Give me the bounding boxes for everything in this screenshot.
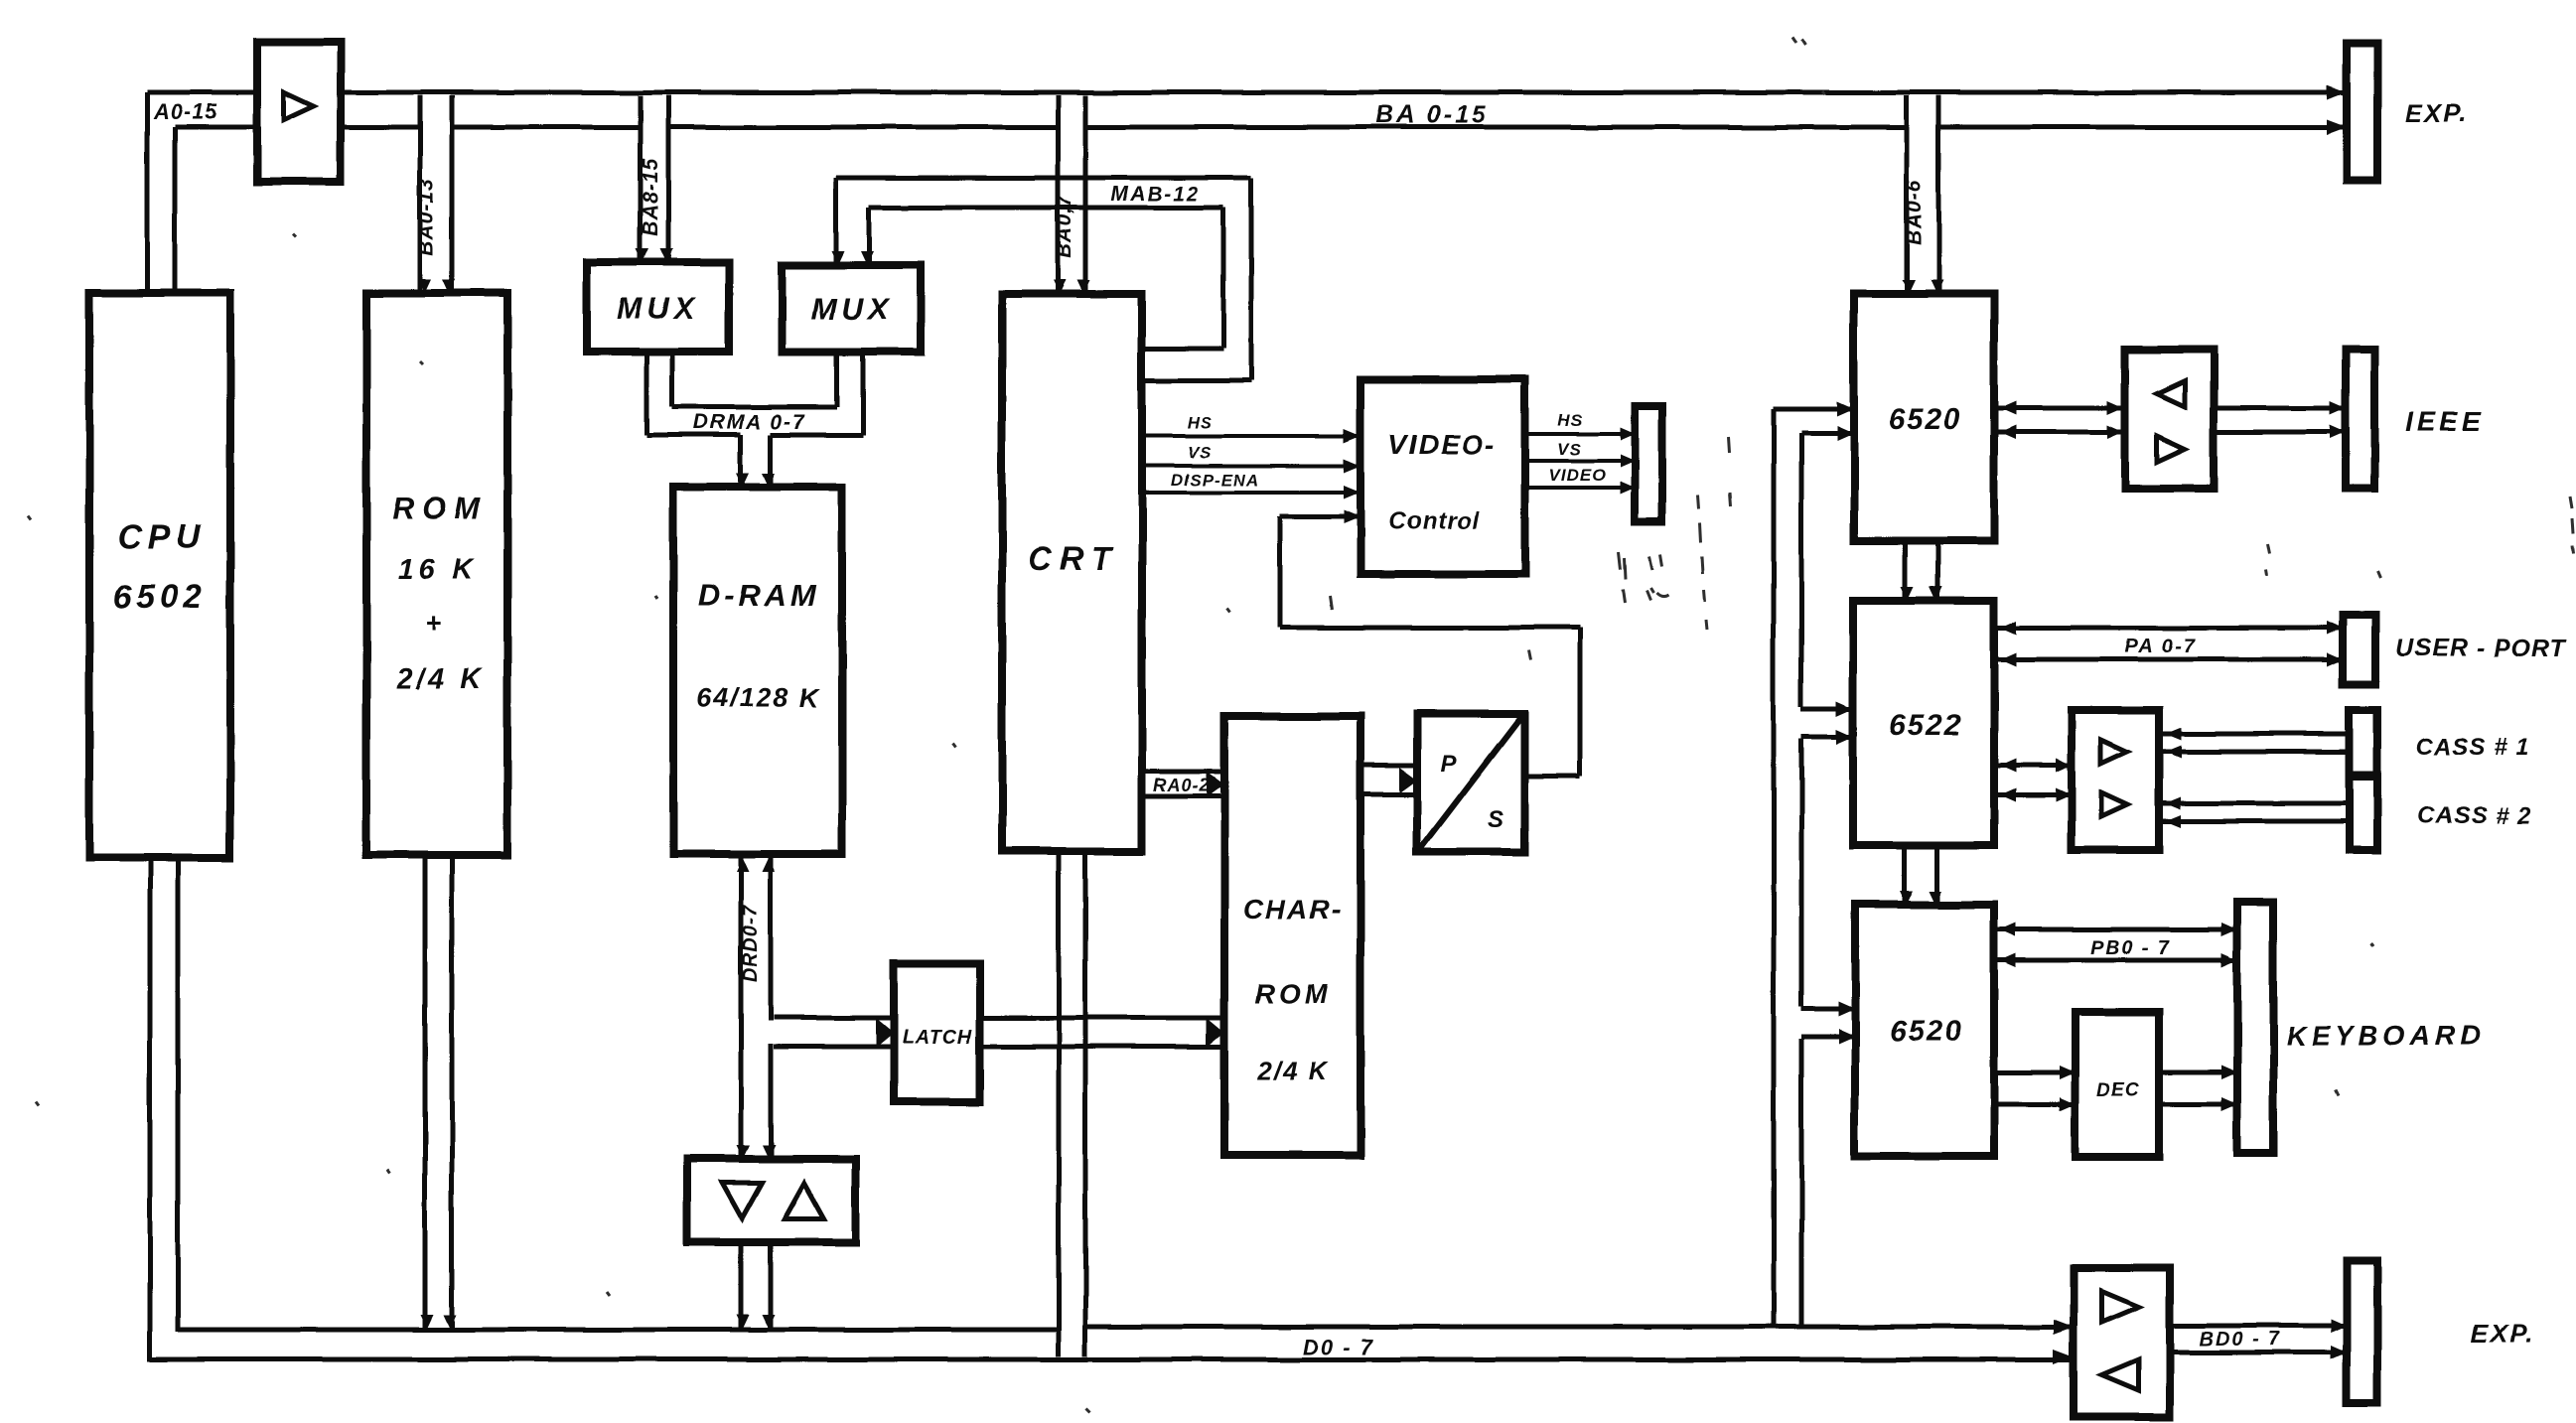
svg-text:EXP.: EXP. xyxy=(2471,1319,2534,1349)
svg-text:HS: HS xyxy=(1557,411,1583,430)
bus branch into 6520 top left xyxy=(1774,407,1850,412)
wire from P/S serial output to VIDEO-control xyxy=(1524,775,1580,780)
bus LATCH to CHAR-ROM xyxy=(980,1016,1220,1021)
bus BD0-7 buffer to bottom EXP connector xyxy=(2170,1324,2343,1329)
wire VIDEO signal to video connector xyxy=(1525,486,1631,490)
svg-text:BA0-6: BA0-6 xyxy=(1903,180,1926,245)
svg-text:LATCH: LATCH xyxy=(902,1026,972,1048)
svg-text:IEEE: IEEE xyxy=(2405,406,2485,437)
bus DRMA 0-7 from MUXes to D-RAM xyxy=(644,352,649,435)
svg-text:ROM: ROM xyxy=(392,491,488,525)
bus branch into 6522 left xyxy=(1801,707,1849,712)
ROM 16K + 2/4K xyxy=(366,293,507,855)
bus CRT data to bottom data bus xyxy=(1057,851,1062,1356)
PIA 6520 (keyboard) xyxy=(1855,905,1994,1156)
bus buffer to bottom data bus xyxy=(739,1242,744,1329)
wire VS CRT to VIDEO-control xyxy=(1142,464,1357,468)
bus DRD to LATCH xyxy=(768,1021,775,1044)
wire HS VIDEO-control to video connector xyxy=(1525,432,1631,436)
bus CHAR-ROM to P/S shifter xyxy=(1360,764,1413,769)
MUX 2 xyxy=(782,265,921,352)
svg-text:USER - PORT: USER - PORT xyxy=(2395,635,2567,662)
svg-text:2/4 K: 2/4 K xyxy=(1256,1056,1329,1085)
CASS #2 connector bar xyxy=(2350,777,2377,850)
svg-text:+: + xyxy=(426,608,444,639)
svg-text:CHAR-: CHAR- xyxy=(1243,894,1343,925)
svg-text:PA 0-7: PA 0-7 xyxy=(2125,636,2197,657)
svg-text:2/4 K: 2/4 K xyxy=(395,663,485,695)
video output connector bar xyxy=(1635,406,1662,521)
svg-text:S: S xyxy=(1488,806,1503,833)
bus 6520 to IEEE buffer xyxy=(1994,406,2125,411)
wire branch BA8-15 to MUX1 xyxy=(639,95,644,260)
svg-text:CASS # 2: CASS # 2 xyxy=(2418,802,2532,829)
svg-text:16 K: 16 K xyxy=(397,554,478,586)
bus ROM data down to data bus xyxy=(423,855,428,1329)
DEC keyboard decoder xyxy=(2075,1012,2159,1157)
bus D0-7 bottom horizontal upper line xyxy=(178,1328,1059,1333)
svg-text:A0-15: A0-15 xyxy=(153,99,218,124)
bus 6520 to 6522 xyxy=(1903,541,1908,599)
CHAR-ROM 2/4K xyxy=(1224,716,1360,1155)
EXP connector bar top right xyxy=(2347,44,2377,181)
svg-text:ROM: ROM xyxy=(1254,978,1331,1009)
svg-text:VS: VS xyxy=(1188,443,1213,462)
VIA 6522 xyxy=(1853,601,1994,845)
svg-text:RA0-2: RA0-2 xyxy=(1153,776,1210,795)
wire branch BA0-13 to ROM xyxy=(418,95,423,291)
svg-text:EXP.: EXP. xyxy=(2405,98,2469,128)
svg-text:DISP-ENA: DISP-ENA xyxy=(1171,471,1259,490)
arrowheads into bottom buffer xyxy=(2054,1320,2074,1335)
CRT controller xyxy=(1002,294,1142,851)
wire HS CRT to VIDEO-control xyxy=(1142,434,1357,438)
MUX 1 xyxy=(587,262,729,352)
svg-text:P: P xyxy=(1441,751,1458,778)
CASS #1 connector bar xyxy=(2350,710,2377,775)
bus D0-7 bottom horizontal lower line xyxy=(150,1357,2074,1362)
bus IEEE buffer to IEEE connector xyxy=(2214,406,2342,411)
svg-text:64/128 K: 64/128 K xyxy=(696,683,821,713)
svg-text:BD0 - 7: BD0 - 7 xyxy=(2200,1329,2282,1351)
svg-text:MAB-12: MAB-12 xyxy=(1110,183,1200,206)
svg-text:HS: HS xyxy=(1187,413,1213,432)
svg-text:VS: VS xyxy=(1557,440,1582,459)
svg-text:VIDEO-: VIDEO- xyxy=(1388,429,1496,460)
VIDEO-Control block xyxy=(1360,379,1525,574)
bus chip-data vertical pair on right xyxy=(1772,409,1777,1329)
bus CPU data down to data bus xyxy=(148,858,153,1361)
svg-text:6520: 6520 xyxy=(1890,1015,1964,1048)
bus DEC to keyboard connector xyxy=(2159,1070,2233,1075)
bottom expansion data buffer with triangles xyxy=(2074,1268,2170,1417)
svg-text:VIDEO: VIDEO xyxy=(1548,466,1606,485)
svg-text:MUX: MUX xyxy=(617,291,700,326)
bus to CASS #1 connector xyxy=(2159,732,2346,737)
bus branch into 6520 bottom left xyxy=(1801,1007,1851,1012)
svg-text:6502: 6502 xyxy=(112,578,208,616)
buffer (address bus driver) top-left xyxy=(257,42,341,182)
bus DRD0-7 D-RAM to bidirectional buffer xyxy=(739,856,744,1157)
svg-text:MUX: MUX xyxy=(810,292,894,327)
LATCH xyxy=(894,963,980,1102)
bus to CASS #2 connector xyxy=(2159,801,2346,806)
svg-text:D0 - 7: D0 - 7 xyxy=(1303,1335,1374,1359)
bus BA0-15 top horizontal lower line (with branch gaps) xyxy=(175,125,420,130)
D-RAM 64/128K xyxy=(673,487,842,854)
KEYBOARD connector bar xyxy=(2237,902,2273,1153)
svg-text:6522: 6522 xyxy=(1889,709,1963,742)
arrowheads into top EXP connector xyxy=(2327,85,2347,100)
bus A0-15 from CPU top (vertical pair) xyxy=(145,92,150,293)
bus RA0-2 CRT to CHAR-ROM xyxy=(1142,770,1220,775)
svg-text:Control: Control xyxy=(1388,507,1481,534)
svg-text:BA 0-15: BA 0-15 xyxy=(1375,101,1488,129)
bus 6520 to DEC decoder xyxy=(1994,1070,2072,1075)
bus BA0-15 top horizontal upper line xyxy=(147,90,2347,95)
bus 6522 to cassette buffer xyxy=(1994,764,2068,769)
USER-PORT connector bar xyxy=(2343,615,2375,684)
svg-text:6520: 6520 xyxy=(1889,403,1963,436)
svg-text:BA0-13: BA0-13 xyxy=(415,178,438,255)
PIA 6520 (IEEE) xyxy=(1854,294,1994,541)
svg-text:BA8-15: BA8-15 xyxy=(640,158,662,235)
svg-text:CPU: CPU xyxy=(117,518,207,556)
wire branch BA0-6 to 6520 xyxy=(1905,95,1910,292)
svg-text:BA0,7: BA0,7 xyxy=(1053,194,1075,258)
svg-text:PB0 - 7: PB0 - 7 xyxy=(2090,937,2172,959)
svg-text:DRMA 0-7: DRMA 0-7 xyxy=(693,411,806,434)
EXP connector bar bottom right xyxy=(2347,1261,2377,1403)
IEEE buffer with triangles xyxy=(2125,350,2214,489)
svg-text:DEC: DEC xyxy=(2096,1080,2139,1101)
bus MAB-12 from CRT to MUX2 (U-loop) xyxy=(836,176,1251,181)
wire branch BA0,7 to CRT xyxy=(1056,95,1061,292)
svg-text:CASS # 1: CASS # 1 xyxy=(2416,734,2530,761)
wire DISP-ENA CRT to VIDEO-control xyxy=(1142,491,1357,495)
bidirectional data buffer with up/down triangles xyxy=(687,1159,856,1242)
CPU 6502 xyxy=(89,293,230,858)
svg-text:KEYBOARD: KEYBOARD xyxy=(2286,1020,2485,1051)
bus PA 0-7 6522 to user port xyxy=(1994,626,2339,631)
cassette buffer with triangles xyxy=(2072,710,2159,850)
IEEE connector bar xyxy=(2346,350,2374,489)
svg-text:D-RAM: D-RAM xyxy=(697,578,819,613)
svg-text:DRD0-7: DRD0-7 xyxy=(740,905,762,982)
bus 6522 to 6520 bottom xyxy=(1903,845,1908,903)
svg-text:CRT: CRT xyxy=(1028,540,1118,577)
bus PB0-7 6520 to keyboard connector xyxy=(1994,927,2233,932)
P/S parallel-serial shifter xyxy=(1417,714,1524,852)
wire VS VIDEO-control to video connector xyxy=(1525,459,1631,463)
